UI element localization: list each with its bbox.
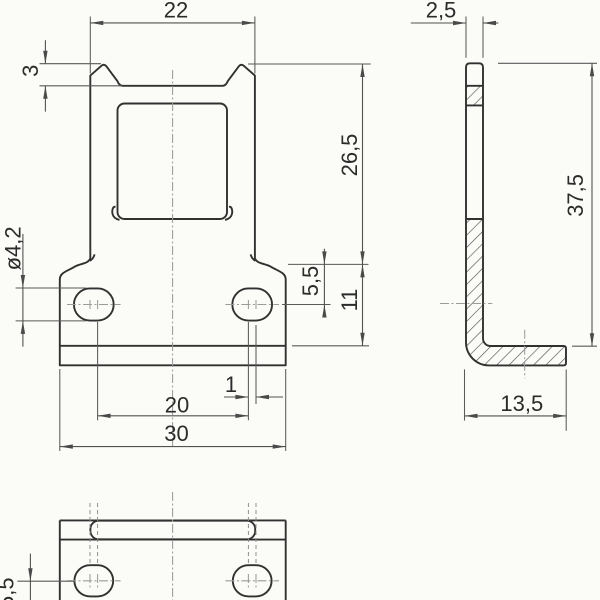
outline top edge xyxy=(60,519,286,521)
slot center ticks xyxy=(89,300,91,310)
slot bottom-right xyxy=(233,565,272,596)
dim 37,5 xyxy=(498,62,597,64)
bend line front xyxy=(60,345,286,347)
dim 22 xyxy=(89,17,91,74)
bend band full line xyxy=(60,539,286,541)
slot hole right xyxy=(232,288,272,320)
band edges xyxy=(466,85,483,87)
svg-text:22: 22 xyxy=(164,0,188,23)
dim 2,5 xyxy=(465,17,467,58)
centerline front vertical xyxy=(172,70,174,447)
dim 5,5 xyxy=(288,263,369,265)
dim 20 xyxy=(97,322,99,420)
slot bottom-left xyxy=(74,565,113,596)
svg-text:3: 3 xyxy=(18,65,43,77)
side leg centerline xyxy=(524,330,526,379)
dim 13,5 xyxy=(464,369,466,420)
square hole corner relief left xyxy=(112,207,119,220)
shoulder relief hook left xyxy=(90,254,95,260)
centerline bottom view xyxy=(172,492,174,600)
bracket front outline xyxy=(60,65,286,366)
dim 3 xyxy=(40,63,102,65)
hatch L body xyxy=(466,219,566,365)
svg-text:5,5: 5,5 xyxy=(0,577,19,600)
svg-text:ø4,2: ø4,2 xyxy=(1,226,26,270)
slot centerline right xyxy=(225,304,279,306)
side hole centerline xyxy=(440,303,492,305)
svg-text:5,5: 5,5 xyxy=(298,266,323,297)
bend band rounded xyxy=(90,521,255,540)
hidden lines xyxy=(89,503,91,565)
svg-text:30: 30 xyxy=(164,421,188,446)
svg-text:11: 11 xyxy=(337,289,362,312)
svg-text:13,5: 13,5 xyxy=(500,391,543,416)
slot centerline left xyxy=(67,304,121,306)
dim 26,5 and 11 xyxy=(248,63,371,65)
square hole corner relief right xyxy=(225,207,232,220)
dim 30 xyxy=(59,369,61,451)
slot hole left xyxy=(74,288,114,320)
dim 5,5 bottom xyxy=(17,580,74,582)
hole bottom edge line xyxy=(466,218,483,220)
svg-text:37,5: 37,5 xyxy=(563,174,588,217)
svg-text:1: 1 xyxy=(225,372,237,397)
hatch band top xyxy=(466,86,483,106)
shoulder relief hook right xyxy=(251,254,256,260)
side outline xyxy=(466,63,566,365)
svg-text:2,5: 2,5 xyxy=(426,0,457,23)
svg-text:20: 20 xyxy=(165,392,189,417)
svg-text:26,5: 26,5 xyxy=(337,134,362,177)
outline left edge xyxy=(59,520,61,600)
dim 1 xyxy=(255,325,257,404)
square hole xyxy=(118,104,228,220)
slot centerlines bottom xyxy=(67,580,121,582)
outline right edge xyxy=(285,520,287,600)
dim o4,2 xyxy=(16,287,86,289)
